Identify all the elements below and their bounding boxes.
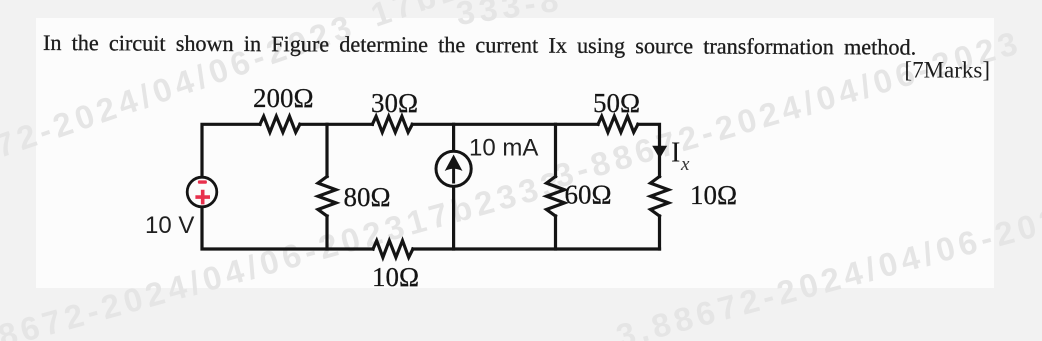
wire bottom left segment — [202, 208, 373, 250]
resistor R 10ohm right vertical — [651, 177, 669, 217]
svg-text:60Ω: 60Ω — [565, 180, 612, 210]
svg-text:80Ω: 80Ω — [344, 182, 391, 212]
current source arrowhead — [445, 155, 463, 172]
resistor R 30ohm — [372, 116, 412, 132]
svg-text:30Ω: 30Ω — [371, 88, 418, 118]
svg-text:10Ω: 10Ω — [690, 180, 737, 210]
wire top between 30ohm and current source node — [412, 123, 598, 126]
wire 10ohm right bottom lead — [658, 216, 661, 249]
wire top right corner — [638, 124, 660, 176]
current source arrow shaft — [452, 166, 455, 184]
resistor R 80ohm vertical — [318, 177, 336, 217]
wire top left segment — [202, 124, 260, 176]
resistor R 60ohm vertical — [547, 177, 565, 217]
wire bottom right segment — [413, 247, 660, 250]
wire 60ohm bottom lead — [554, 216, 557, 249]
svg-text:10 mA: 10 mA — [469, 135, 538, 162]
current source I1 circle — [436, 151, 471, 186]
svg-text:x: x — [680, 154, 690, 175]
svg-text:I: I — [671, 138, 680, 169]
svg-text:200Ω: 200Ω — [253, 83, 314, 113]
node branch 80ohm top lead — [325, 124, 328, 176]
wire top between 200ohm and 30ohm — [300, 123, 373, 126]
resistor R 200ohm — [260, 116, 300, 132]
wire 80ohm bottom lead — [325, 216, 328, 249]
Ix arrowhead — [652, 146, 667, 159]
svg-text:10Ω: 10Ω — [372, 262, 419, 292]
svg-text:In the circuit shown in Figure: In the circuit shown in Figure determine… — [43, 30, 916, 60]
wire current source top lead — [452, 124, 455, 151]
voltage source minus sign — [198, 180, 207, 183]
node branch 60ohm top lead — [554, 124, 557, 176]
resistor R 50ohm — [598, 116, 638, 132]
voltage source V1 circle — [187, 177, 217, 207]
page — [36, 18, 994, 288]
svg-text:50Ω: 50Ω — [593, 88, 640, 118]
wire current source bottom lead — [452, 186, 455, 249]
voltage source plus sign — [195, 190, 210, 205]
svg-text:10 V: 10 V — [145, 212, 194, 239]
resistor R 10ohm bottom — [373, 241, 413, 258]
svg-text:[7Marks]: [7Marks] — [904, 58, 990, 83]
